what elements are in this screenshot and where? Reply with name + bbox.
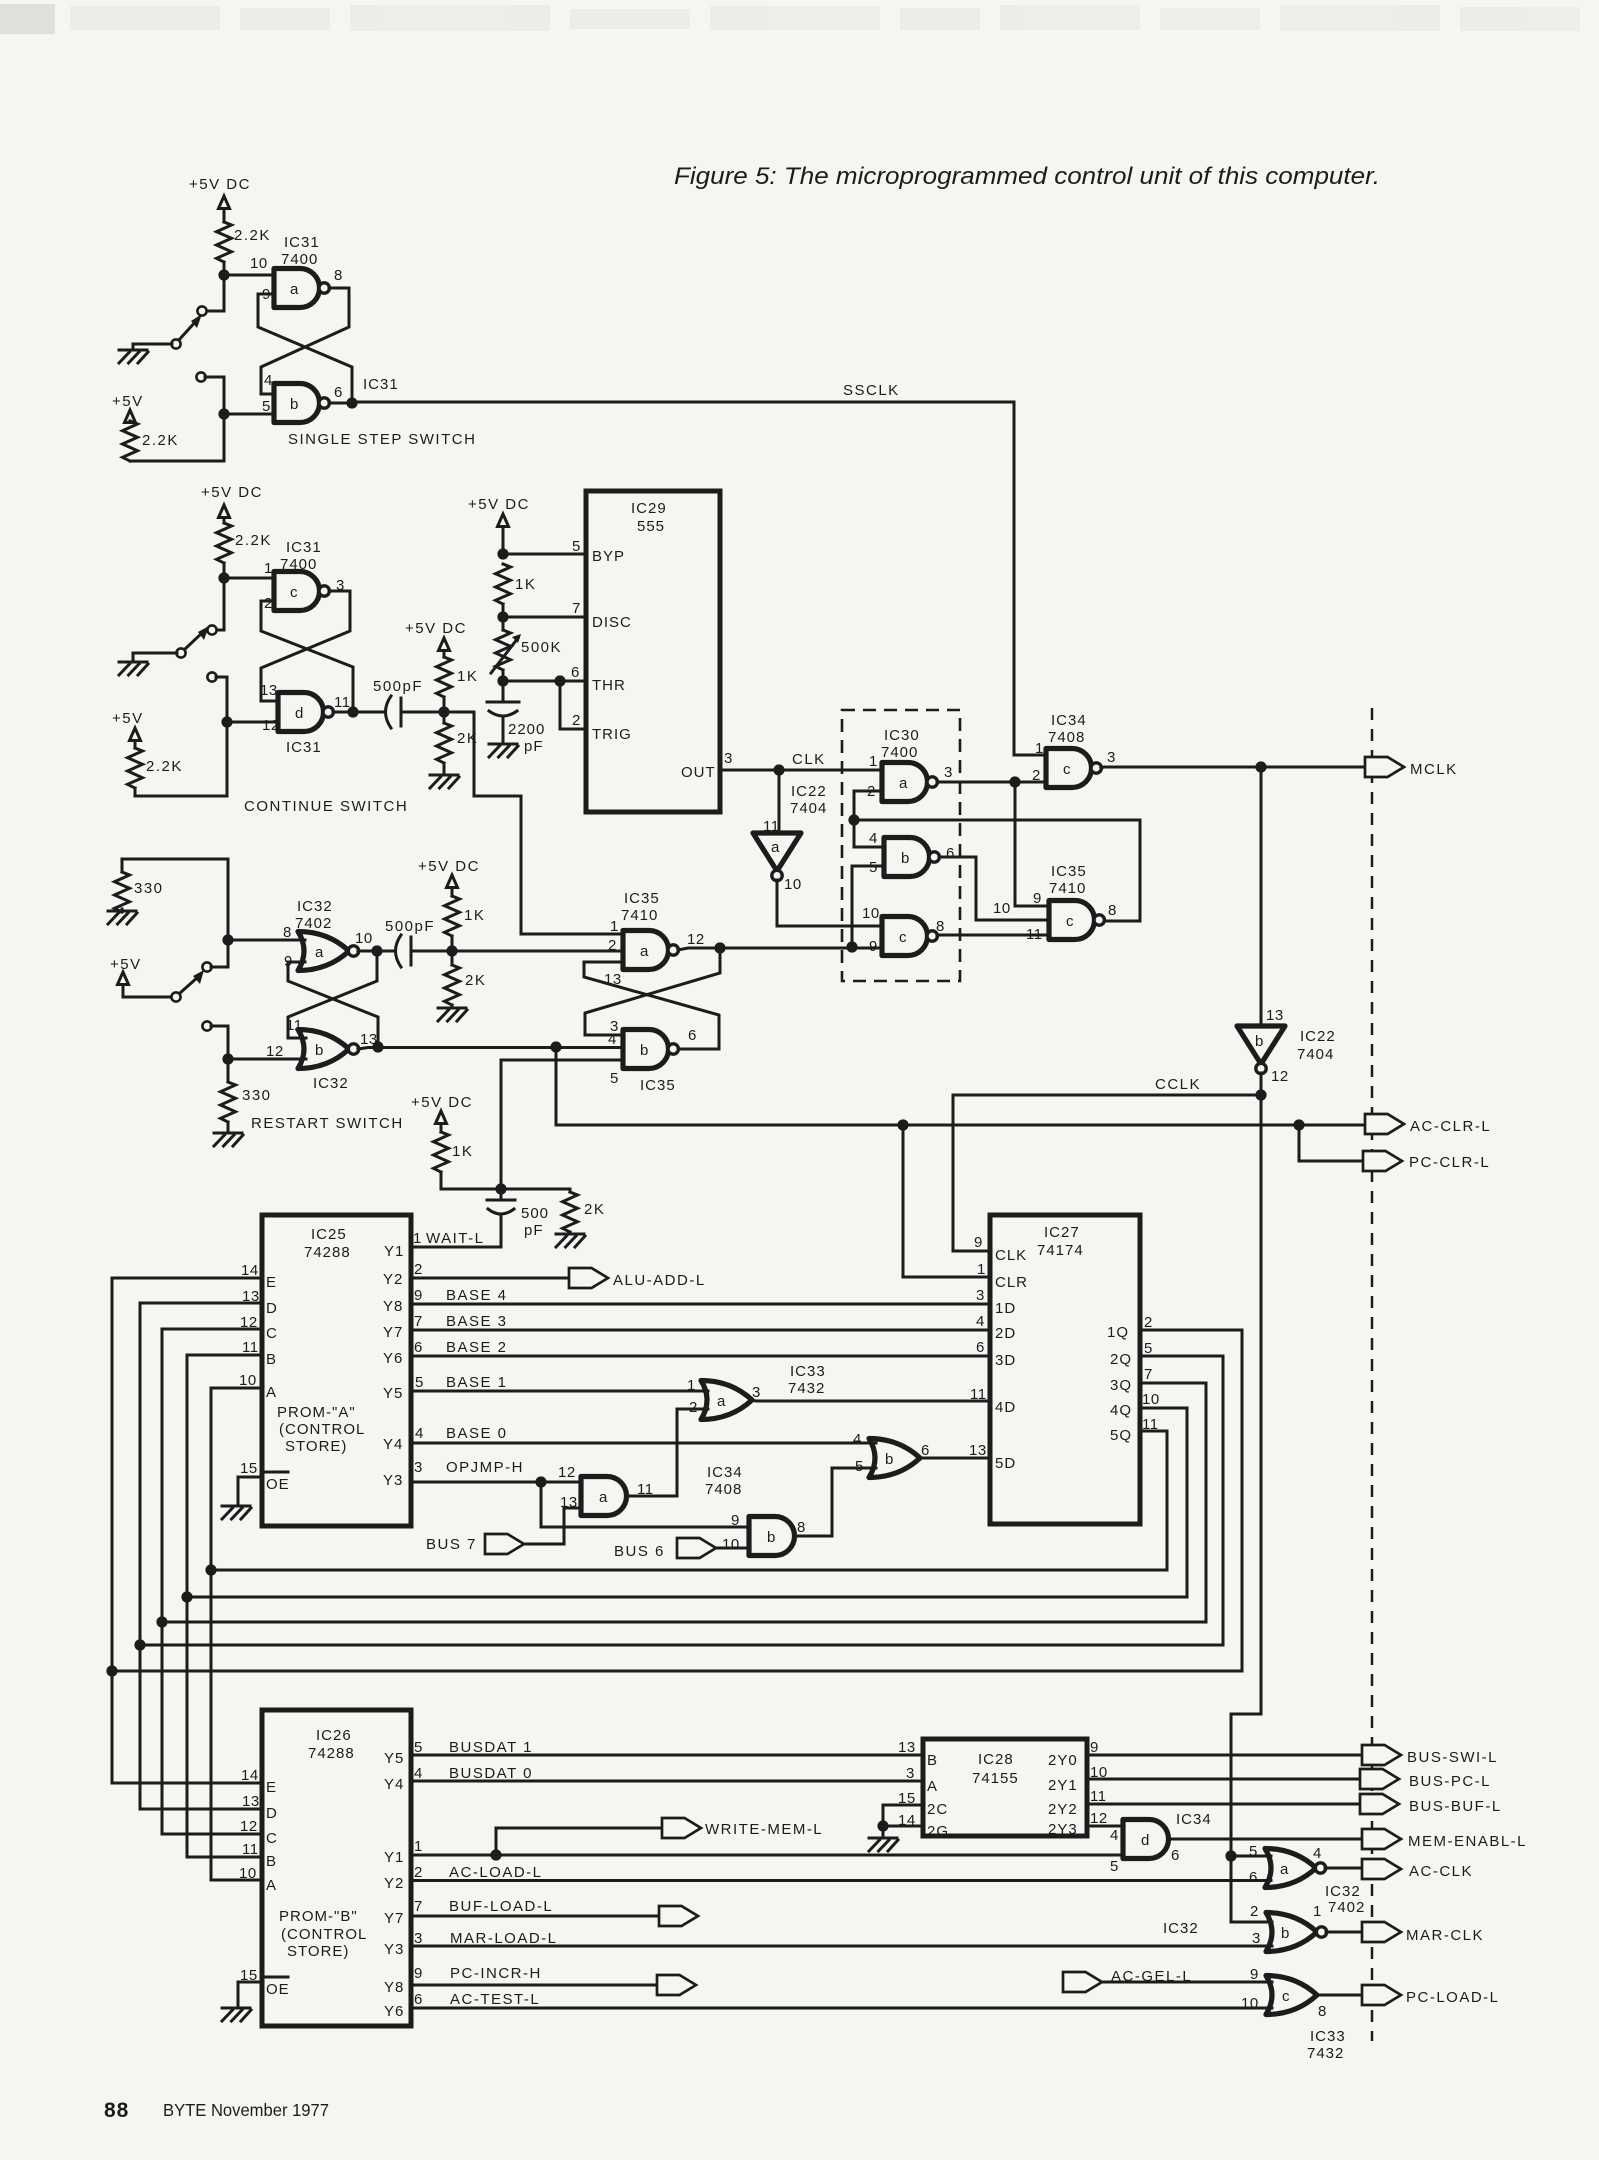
junction node THR	[497, 675, 508, 686]
wire IC33b output to IC27 5D	[920, 1457, 990, 1460]
svg-text:b: b	[767, 1529, 776, 1546]
wire 1Q loop to PROM E pins	[112, 1330, 1242, 1671]
power arrow +5VDC (single step)	[219, 196, 230, 209]
resistor 1K (WAIT pull-up)	[440, 1124, 443, 1133]
svg-text:2: 2	[1144, 1314, 1153, 1331]
svg-text:8: 8	[1318, 2003, 1327, 2020]
svg-text:8: 8	[334, 267, 343, 284]
svg-text:2Y0: 2Y0	[1048, 1752, 1078, 1769]
output arrow AC-CLR-L	[1365, 1114, 1404, 1134]
svg-text:MAR-LOAD-L: MAR-LOAD-L	[450, 1930, 558, 1947]
wire 2Y0 to BUS-SWI-L	[1087, 1754, 1362, 1757]
svg-text:+5V DC: +5V DC	[405, 620, 467, 637]
svg-text:AC-CLK: AC-CLK	[1409, 1863, 1473, 1880]
wire MAR-LOAD-L to IC32b pin 3	[411, 1945, 1272, 1948]
svg-text:2.2K: 2.2K	[235, 532, 272, 549]
wire node to pin 6 THR	[503, 680, 586, 683]
svg-text:3Q: 3Q	[1110, 1377, 1132, 1394]
svg-text:10: 10	[355, 930, 373, 947]
wire node to IC31d pin12	[227, 721, 278, 724]
svg-text:OE: OE	[266, 1981, 290, 1998]
capacitor 500pF (restart pulse)	[396, 935, 402, 967]
svg-text:2: 2	[572, 712, 581, 729]
wire IC32b output to IC35b pin4	[358, 1048, 623, 1050]
junction node BYP	[497, 548, 508, 559]
svg-text:7400: 7400	[881, 744, 918, 761]
wire A to feedback bus	[211, 1387, 262, 1390]
junction node WRITE-MEM branch	[490, 1849, 501, 1860]
svg-text:ALU-ADD-L: ALU-ADD-L	[613, 1272, 706, 1289]
power arrow	[130, 728, 141, 741]
ground (2200pF)	[489, 744, 518, 757]
svg-text:IC33: IC33	[790, 1363, 826, 1380]
svg-text:a: a	[315, 944, 324, 961]
svg-text:2Y3: 2Y3	[1048, 1821, 1078, 1838]
svg-text:IC35: IC35	[1051, 863, 1087, 880]
svg-text:IC33: IC33	[1310, 2028, 1346, 2045]
nor gate IC32a (AC-CLK)	[1265, 1849, 1326, 1888]
IC29 box	[586, 491, 720, 812]
svg-text:5: 5	[855, 1458, 864, 1475]
svg-text:7404: 7404	[1297, 1046, 1334, 1063]
IC26 box	[262, 1710, 411, 2026]
ground (WAIT 2K)	[556, 1234, 585, 1247]
svg-text:1K: 1K	[464, 907, 485, 924]
wire IC35b pin 5 to WAIT-L node	[501, 1060, 623, 1189]
svg-text:IC28: IC28	[978, 1751, 1014, 1768]
svg-text:BUSDAT 1: BUSDAT 1	[449, 1739, 533, 1756]
wire node up to WRITE-MEM-L arrow	[496, 1828, 662, 1855]
wire CLK to IC30a pin 1	[779, 769, 882, 772]
svg-text:74174: 74174	[1037, 1242, 1084, 1259]
svg-text:STORE): STORE)	[287, 1943, 349, 1960]
svg-text:8: 8	[1108, 902, 1117, 919]
svg-text:11: 11	[1026, 926, 1043, 943]
wire to PC-CLR arrow	[1299, 1125, 1363, 1161]
feedback junction node (IC30 a2/b4)	[848, 814, 859, 825]
wire node down to switch contact	[216, 578, 224, 630]
wire IC33c output to PC-LOAD-L	[1317, 1994, 1362, 1997]
wire 2Y2 to BUS-BUF-L	[1087, 1803, 1360, 1806]
wire OPJMP node to IC34b pin 9	[541, 1482, 750, 1527]
svg-text:2: 2	[1032, 767, 1041, 784]
svg-text:Y2: Y2	[383, 1271, 403, 1288]
wire node to pin 5 BYP	[503, 553, 586, 556]
output arrow BUS-SWI-L	[1362, 1745, 1401, 1765]
svg-text:+5V: +5V	[112, 710, 144, 727]
svg-text:330: 330	[242, 1087, 272, 1104]
svg-text:D: D	[266, 1300, 278, 1317]
svg-text:12: 12	[1090, 1810, 1108, 1827]
svg-text:IC32: IC32	[297, 898, 333, 915]
svg-text:SSCLK: SSCLK	[843, 382, 900, 399]
svg-text:a: a	[290, 281, 299, 298]
svg-text:IC30: IC30	[884, 727, 920, 744]
wire node to IC35a pin 2	[452, 950, 623, 953]
svg-text:11: 11	[334, 694, 351, 711]
svg-text:AC-TEST-L: AC-TEST-L	[450, 1991, 540, 2008]
power arrow	[118, 972, 129, 985]
junction node CCLK	[1255, 1089, 1266, 1100]
junction node pulse	[438, 706, 449, 717]
switch pivot contact	[171, 339, 180, 348]
cross-coupling b-out to a pin9	[288, 962, 378, 1047]
ground (pulse network)	[430, 775, 459, 788]
nand gate IC31c	[274, 572, 329, 611]
wire Y1 to IC34d pin 5	[411, 1854, 1123, 1857]
svg-text:7410: 7410	[1049, 880, 1086, 897]
svg-text:11: 11	[970, 1386, 987, 1403]
wire BUSDAT1 to IC28 B	[411, 1754, 923, 1757]
input arrow BUS 6	[677, 1538, 716, 1558]
svg-text:+5V: +5V	[112, 393, 144, 410]
svg-text:a: a	[771, 839, 780, 856]
svg-text:Y7: Y7	[383, 1324, 403, 1341]
switch upper contact	[197, 306, 206, 315]
svg-text:PROM-"B": PROM-"B"	[279, 1908, 358, 1925]
inverter IC22a	[753, 833, 801, 881]
nand gate IC31d	[278, 693, 333, 732]
svg-text:2: 2	[689, 1399, 698, 1416]
svg-text:BUS 6: BUS 6	[614, 1543, 665, 1560]
svg-text:10: 10	[784, 876, 802, 893]
wire 2K to ground	[443, 763, 446, 775]
svg-text:a: a	[1280, 1861, 1289, 1878]
wire inverter b output to CCLK node	[1260, 1073, 1263, 1095]
wire E to feedback bus	[112, 1277, 262, 1280]
svg-text:A: A	[266, 1384, 277, 1401]
resistor 2.2K (single step lower)	[129, 421, 132, 423]
output arrow MAR-CLK	[1362, 1922, 1401, 1942]
svg-text:1: 1	[869, 753, 878, 770]
wire 2K to ground	[451, 1005, 454, 1008]
svg-text:PC-INCR-H: PC-INCR-H	[450, 1965, 542, 1982]
svg-text:4: 4	[415, 1425, 424, 1442]
svg-text:IC22: IC22	[1300, 1028, 1336, 1045]
and gate IC34d	[1123, 1820, 1169, 1859]
switch pivot (restart)	[171, 992, 180, 1001]
wire power to resistor	[223, 209, 226, 223]
svg-text:74288: 74288	[308, 1745, 355, 1762]
svg-text:Y5: Y5	[383, 1385, 403, 1402]
wire resistor to node	[223, 262, 226, 275]
svg-text:6: 6	[571, 664, 580, 681]
svg-text:9: 9	[414, 1965, 423, 1982]
output arrow PC-LOAD-L	[1362, 1985, 1401, 2005]
svg-text:7: 7	[572, 600, 581, 617]
svg-text:2Y2: 2Y2	[1048, 1801, 1078, 1818]
svg-text:b: b	[315, 1042, 324, 1059]
svg-text:CONTINUE SWITCH: CONTINUE SWITCH	[244, 798, 408, 815]
svg-text:B: B	[266, 1351, 277, 1368]
svg-text:Y1: Y1	[384, 1243, 404, 1260]
svg-text:C: C	[266, 1830, 278, 1847]
svg-text:IC29: IC29	[631, 500, 667, 517]
wire node to IC30b pin 4	[854, 820, 884, 847]
svg-text:1Q: 1Q	[1107, 1324, 1129, 1341]
junction node WAIT	[495, 1183, 506, 1194]
wire E bus vertical	[111, 1278, 114, 1783]
bus boundary dashed line	[1371, 708, 1374, 2041]
svg-text:13: 13	[242, 1793, 260, 1810]
svg-text:a: a	[717, 1393, 726, 1410]
wire B bus to IC26	[187, 1856, 262, 1859]
svg-text:1D: 1D	[995, 1300, 1016, 1317]
svg-text:13: 13	[1266, 1007, 1284, 1024]
junction node IC30 b5/c9 feed	[846, 941, 857, 952]
wire pivot to ground	[133, 653, 177, 662]
svg-text:BUF-LOAD-L: BUF-LOAD-L	[449, 1898, 553, 1915]
svg-text:11: 11	[242, 1339, 259, 1356]
svg-text:88: 88	[104, 2099, 129, 2122]
switch arm with arrowhead	[178, 320, 197, 341]
svg-text:CCLK: CCLK	[1155, 1076, 1201, 1093]
power arrow	[436, 1111, 447, 1124]
svg-text:7: 7	[414, 1898, 423, 1915]
wire resistor to node	[223, 563, 226, 578]
svg-text:WAIT-L: WAIT-L	[426, 1230, 484, 1247]
svg-text:7432: 7432	[1307, 2045, 1344, 2062]
svg-text:7432: 7432	[788, 1380, 825, 1397]
wire node to IC35a pin1 (long route)	[444, 712, 623, 934]
IC30 dashed package box	[842, 710, 960, 981]
svg-text:8: 8	[283, 924, 292, 941]
svg-text:a: a	[640, 943, 649, 960]
svg-text:1: 1	[977, 1261, 986, 1278]
junction node B bus	[181, 1591, 192, 1602]
svg-text:5: 5	[572, 538, 581, 555]
wire IC32a output to AC-CLK	[1325, 1867, 1362, 1870]
svg-text:TRIG: TRIG	[592, 726, 632, 743]
svg-text:1: 1	[687, 1377, 696, 1394]
resistor 2.2K pull-up (single step set)	[217, 222, 232, 262]
svg-text:pF: pF	[524, 738, 544, 755]
svg-text:1: 1	[610, 918, 619, 935]
resistor 1K (pulse pull-up)	[443, 651, 446, 658]
svg-text:3: 3	[1107, 749, 1116, 766]
svg-text:10: 10	[1241, 1995, 1259, 2012]
and gate IC34c (drawn with bubble)	[1046, 749, 1101, 788]
or gate IC33a	[701, 1381, 752, 1420]
wire IC30c output to IC35c pin 11	[937, 934, 1049, 937]
svg-text:+5V DC: +5V DC	[468, 496, 530, 513]
svg-text:6: 6	[921, 1442, 930, 1459]
switch arm (continue)	[184, 632, 203, 650]
wire BASE4 Y8 to IC27 1D	[411, 1303, 990, 1306]
svg-text:1: 1	[1035, 740, 1044, 757]
svg-text:4: 4	[608, 1031, 617, 1048]
svg-text:a: a	[899, 775, 908, 792]
svg-text:IC25: IC25	[311, 1226, 347, 1243]
svg-text:BYTE November 1977: BYTE November 1977	[163, 2100, 329, 2120]
wire d output to capacitor	[333, 711, 385, 714]
cross-coupling wire a-out to b pin4	[261, 288, 349, 394]
svg-text:MEM-ENABL-L: MEM-ENABL-L	[1408, 1833, 1527, 1850]
nand gate IC30a	[882, 763, 937, 802]
variable resistor 500K	[502, 617, 505, 630]
svg-text:500pF: 500pF	[385, 918, 435, 935]
junction node C bus	[156, 1616, 167, 1627]
svg-text:E: E	[266, 1779, 277, 1796]
wire IC31b bubble to node	[329, 402, 352, 405]
switch arm (restart)	[180, 977, 198, 993]
wire AC-CLR-L net from IC35b pin4 node	[556, 1047, 1365, 1125]
svg-text:500pF: 500pF	[373, 678, 423, 695]
svg-text:Y8: Y8	[383, 1298, 403, 1315]
svg-text:4Q: 4Q	[1110, 1402, 1132, 1419]
svg-text:2Q: 2Q	[1110, 1351, 1132, 1368]
wire TRIG branch	[560, 681, 586, 729]
svg-text:2.2K: 2.2K	[142, 432, 179, 449]
wire capacitor to node	[401, 711, 444, 714]
junction node 2G ground	[877, 1820, 888, 1831]
svg-text:12: 12	[240, 1818, 258, 1835]
output arrow AC-CLK	[1362, 1859, 1401, 1879]
wire WAIT-L to IC25 Y1	[411, 1246, 501, 1249]
junction node IC32b pin 12	[222, 1053, 233, 1064]
wire Y2 to ALU-ADD-L arrow	[411, 1277, 569, 1280]
junction node IC32a output	[371, 945, 382, 956]
power arrow	[439, 638, 450, 651]
svg-text:10: 10	[250, 255, 268, 272]
wire 1K to node	[451, 936, 454, 951]
svg-text:b: b	[290, 396, 299, 413]
svg-text:IC32: IC32	[313, 1075, 349, 1092]
wire node to IC31a pin 10	[224, 274, 274, 277]
output arrow BUS-BUF-L	[1360, 1794, 1399, 1814]
wire 1K to node	[443, 697, 446, 712]
wire resistor bottom to switch vertical	[130, 460, 224, 463]
svg-text:9: 9	[731, 1512, 740, 1529]
wire 330 top to switch vertical	[122, 859, 228, 967]
svg-text:555: 555	[637, 518, 665, 535]
wire 1K to DISC node	[502, 604, 505, 617]
svg-text:Y4: Y4	[383, 1436, 403, 1453]
svg-text:BUS-BUF-L: BUS-BUF-L	[1409, 1798, 1502, 1815]
svg-text:IC31: IC31	[284, 234, 320, 251]
svg-text:Y8: Y8	[384, 1979, 404, 1996]
and gate IC34b	[749, 1517, 795, 1556]
svg-text:10: 10	[862, 905, 880, 922]
svg-text:2G: 2G	[927, 1823, 949, 1840]
cross-coupling b-out to a pin13	[584, 962, 719, 1049]
svg-text:Y5: Y5	[384, 1750, 404, 1767]
wire capacitor to node	[411, 950, 452, 953]
svg-text:5Q: 5Q	[1110, 1427, 1132, 1444]
wire B bus vertical	[186, 1355, 189, 1857]
junction node DISC	[497, 611, 508, 622]
svg-text:6: 6	[976, 1339, 985, 1356]
wire IC34b output to IC33b pin 5	[795, 1468, 876, 1536]
svg-text:5: 5	[262, 398, 271, 415]
svg-text:PC-CLR-L: PC-CLR-L	[1409, 1154, 1490, 1171]
svg-text:10: 10	[239, 1372, 257, 1389]
power arrow	[498, 514, 509, 527]
svg-text:b: b	[885, 1451, 894, 1468]
junction node PC-CLR branch	[1293, 1119, 1304, 1130]
svg-text:Y1: Y1	[384, 1849, 404, 1866]
svg-text:4: 4	[869, 830, 878, 847]
svg-text:DISC: DISC	[592, 614, 632, 631]
svg-text:14: 14	[241, 1262, 259, 1279]
svg-text:CLK: CLK	[995, 1247, 1027, 1264]
svg-text:6: 6	[334, 384, 343, 401]
output arrow PC-INCR-H	[657, 1975, 696, 1995]
wire IC34c output to MCLK	[1101, 767, 1365, 768]
wire A bus to IC26	[211, 1879, 262, 1882]
svg-text:5D: 5D	[995, 1455, 1016, 1472]
wire node to IC32a pin 8	[228, 939, 305, 942]
wire power to BYP node	[502, 527, 505, 555]
nor gate IC32b (restart latch)	[298, 1030, 359, 1069]
svg-text:STORE): STORE)	[285, 1438, 347, 1455]
svg-text:b: b	[640, 1042, 649, 1059]
svg-text:IC34: IC34	[707, 1464, 743, 1481]
svg-text:IC31: IC31	[363, 376, 399, 393]
junction node pin5	[218, 408, 229, 419]
junction node TRIG branch	[554, 675, 565, 686]
wire MCLK node down to IC22b input	[1260, 767, 1263, 1026]
wire IC34d output to MEM-ENABL-L	[1169, 1838, 1362, 1841]
resistor 330 (restart upper)	[121, 859, 124, 872]
wire CCLK node down main clock rail	[1231, 1095, 1272, 1922]
wire vertical to pin5 node and pull-down	[223, 377, 226, 461]
svg-text:Figure 5: The microprogrammed: Figure 5: The microprogrammed control un…	[674, 163, 1380, 190]
junction node pin10	[218, 269, 229, 280]
switch upper contact (continue)	[207, 625, 216, 634]
svg-text:MAR-CLK: MAR-CLK	[1406, 1927, 1484, 1944]
svg-text:1: 1	[1313, 1903, 1322, 1920]
wire B to feedback bus	[187, 1354, 262, 1357]
wire node to IC31b pin 5	[224, 413, 274, 416]
svg-text:2Y1: 2Y1	[1048, 1777, 1078, 1794]
svg-text:IC27: IC27	[1044, 1224, 1080, 1241]
resistor 2K (WAIT pull-down)	[569, 1189, 572, 1192]
svg-text:d: d	[1141, 1832, 1150, 1849]
wire BUS6 to IC34b pin 10	[716, 1547, 750, 1550]
svg-text:c: c	[899, 929, 907, 946]
svg-text:11: 11	[242, 1841, 259, 1858]
resistor 2K (pulse pull-down)	[443, 712, 446, 723]
cross-coupling d-out to c pin2	[261, 601, 353, 712]
nand gate IC30c	[882, 917, 937, 956]
svg-text:c: c	[1066, 913, 1074, 930]
svg-text:3: 3	[944, 764, 953, 781]
svg-text:9: 9	[974, 1234, 983, 1251]
ground (single step switch)	[119, 350, 148, 363]
wire D bus to IC26	[140, 1808, 262, 1811]
svg-text:BUSDAT 0: BUSDAT 0	[449, 1765, 533, 1782]
junction node D bus	[134, 1639, 145, 1650]
junction node AC-CLR origin	[550, 1041, 561, 1052]
svg-text:7410: 7410	[621, 907, 658, 924]
resistor 2.2K pull-up (continue)	[217, 523, 232, 563]
nor gate IC32a (restart latch)	[298, 932, 359, 971]
svg-text:BASE 0: BASE 0	[446, 1425, 508, 1442]
wire C bus vertical	[161, 1329, 164, 1834]
svg-text:4: 4	[976, 1313, 985, 1330]
svg-text:CLR: CLR	[995, 1274, 1028, 1291]
wire IC32b output to MAR-CLK	[1326, 1931, 1362, 1934]
svg-text:BASE 4: BASE 4	[446, 1287, 508, 1304]
svg-text:BYP: BYP	[592, 548, 625, 565]
wire node to IC30a pin 2	[854, 791, 882, 820]
IC27 box	[990, 1215, 1140, 1524]
svg-text:BASE 3: BASE 3	[446, 1313, 508, 1330]
svg-text:7: 7	[1144, 1366, 1153, 1383]
wire A bus vertical	[210, 1388, 213, 1880]
svg-text:13: 13	[260, 682, 278, 699]
